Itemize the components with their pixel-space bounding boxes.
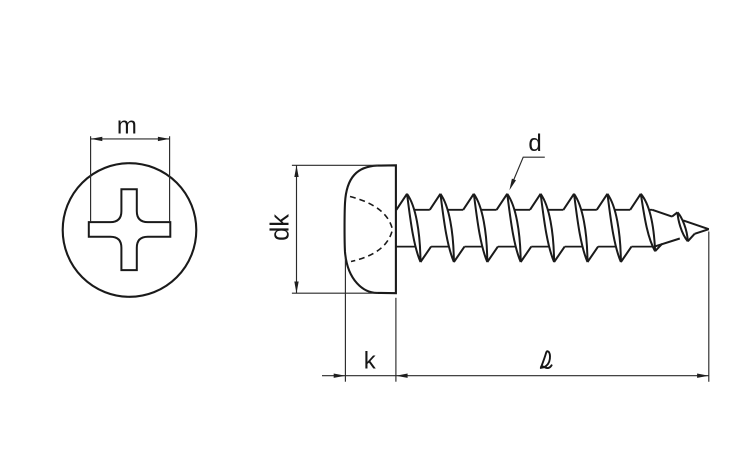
dimension m: dimension line bbox=[91, 138, 170, 140]
screw head outline circle (front view) bbox=[63, 163, 197, 297]
leader d: leader line bbox=[511, 157, 545, 185]
phillips cross recess outline (front view) bbox=[89, 189, 171, 270]
dimension dk: extension lines bbox=[292, 165, 378, 293]
thread tooth 8 bbox=[630, 194, 662, 251]
phillips recess depth (hidden dashed curve in head) bbox=[350, 197, 393, 262]
svg-text:k: k bbox=[364, 348, 377, 375]
dimension l: left arrowhead bbox=[396, 374, 408, 378]
thread core bottom line segments bbox=[396, 246, 653, 248]
dimension k: left extension line bbox=[344, 258, 346, 382]
dimension l: right extension line at screw tip bbox=[708, 232, 710, 382]
dimension k and l: shared extension line at head face bbox=[395, 298, 397, 382]
thread tooth 5 bbox=[530, 194, 565, 262]
dimension dk: bottom arrowhead bbox=[294, 282, 298, 294]
leader d: arrowhead bbox=[509, 179, 516, 191]
dimension l: label script ell bbox=[541, 351, 552, 368]
screw tip taper bottom line bbox=[655, 229, 709, 246]
dimension dk: dimension line bbox=[296, 165, 298, 293]
dimension dk: top arrowhead bbox=[294, 165, 298, 177]
thread tooth 4 bbox=[497, 194, 532, 262]
dimension k: outside left arrowhead bbox=[334, 374, 346, 378]
dimension m: extension lines bbox=[91, 136, 170, 222]
screw tip taper top line bbox=[652, 210, 709, 229]
thread core top line segments bbox=[414, 209, 652, 211]
thread tooth 3 bbox=[463, 194, 498, 262]
svg-text:m: m bbox=[117, 112, 137, 139]
thread tooth 6 bbox=[563, 194, 598, 262]
svg-text:dk: dk bbox=[267, 214, 295, 241]
screw head outline (side view, pan head) bbox=[345, 165, 396, 293]
dimension l: right arrowhead bbox=[697, 374, 709, 378]
thread tooth 2 bbox=[430, 194, 465, 262]
dimension m: right arrowhead bbox=[158, 137, 170, 141]
dimension m: left arrowhead bbox=[91, 137, 103, 141]
svg-text:d: d bbox=[528, 130, 541, 157]
thread tooth 1 bbox=[396, 194, 431, 262]
thread tooth 9 (small, on tip taper) bbox=[672, 212, 695, 241]
dimension k and l: dimension line bbox=[322, 375, 709, 377]
thread tooth 7 bbox=[597, 194, 632, 262]
